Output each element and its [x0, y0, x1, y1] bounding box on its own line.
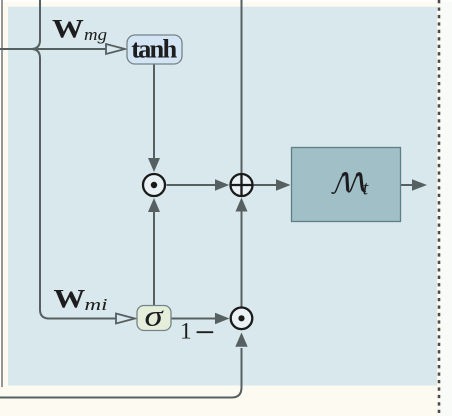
- svg-text:W: W: [52, 15, 84, 44]
- label W_mg: [52, 15, 84, 44]
- Mt memory box: [292, 148, 401, 222]
- wire: bottom entry up into odot2: [0, 348, 242, 398]
- open arrowhead into sigma: [116, 314, 135, 324]
- svg-text:t: t: [363, 177, 369, 199]
- right margin strip: [440, 0, 452, 416]
- wire: odot1 right to oplus: [167, 184, 217, 186]
- wire: sigma right to odot2: [171, 318, 216, 320]
- wire: tanh down to odot1: [153, 64, 155, 160]
- svg-text:mi: mi: [85, 295, 109, 314]
- svg-text:σ: σ: [144, 300, 164, 333]
- left neighbour panel edge line: [1, 0, 3, 387]
- open arrowhead into tanh: [106, 44, 125, 54]
- sigma box: [137, 306, 171, 331]
- odot1 (elementwise product): [143, 174, 165, 196]
- svg-text:mg: mg: [84, 25, 107, 44]
- wire: left entry down to sigma: [0, 48, 106, 50]
- dashed boundary line right: [438, 0, 441, 416]
- wire: left entry branch down to sigma: [31, 49, 116, 319]
- wire: odot2 up to oplus: [241, 211, 243, 307]
- wire: oplus to Mt box: [254, 184, 278, 186]
- svg-text:tanh: tanh: [131, 34, 177, 64]
- wire: top entry to plus node: [241, 0, 243, 174]
- white sliver left of neighbour edge: [0, 0, 1, 387]
- wire: Mt box output right: [401, 184, 414, 186]
- oplus (elementwise sum): [231, 174, 253, 196]
- wire: sigma up to odot1: [153, 210, 155, 306]
- tanh box: [127, 35, 182, 64]
- odot2 (elementwise product): [231, 308, 253, 330]
- svg-text:W: W: [54, 285, 86, 314]
- white strip top edge: [0, 0, 452, 2]
- label W_mi: [54, 285, 86, 314]
- svg-text:1: 1: [180, 318, 192, 344]
- wire: top entry to tanh: [31, 0, 40, 49]
